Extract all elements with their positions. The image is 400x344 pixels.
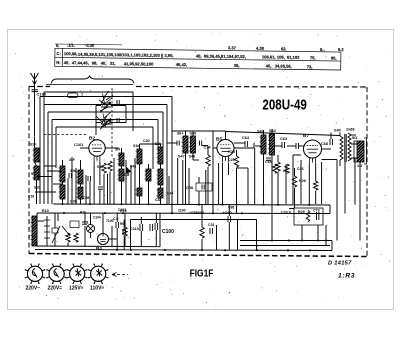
svg-text:C64: C64 bbox=[242, 136, 250, 140]
wire bbox=[213, 130, 226, 132]
scan noise speckles bbox=[15, 33, 390, 307]
svg-text:E16: E16 bbox=[120, 209, 127, 213]
junction bbox=[198, 203, 200, 205]
wire bbox=[148, 164, 150, 169]
capacitor C68 bbox=[295, 143, 297, 149]
svg-text:C30: C30 bbox=[143, 139, 150, 143]
wire bbox=[51, 120, 53, 205]
svg-text:31,: 31, bbox=[110, 61, 116, 66]
wire bbox=[56, 126, 153, 128]
capacitor C63 bbox=[281, 142, 283, 148]
wire bbox=[90, 213, 92, 225]
table row C bbox=[56, 51, 336, 61]
svg-text:5Ω: 5Ω bbox=[352, 136, 357, 140]
wire bbox=[116, 213, 118, 222]
tuning gang dashed coupling bbox=[111, 88, 113, 158]
wire bbox=[109, 172, 111, 204]
mains plug 110V bbox=[91, 266, 106, 281]
wire bbox=[48, 111, 163, 113]
junction bbox=[256, 249, 258, 251]
capacitor C66 bbox=[266, 157, 271, 159]
wire bbox=[202, 145, 209, 147]
resistor R9 bbox=[123, 227, 127, 236]
wire bbox=[351, 143, 357, 145]
antenna bbox=[34, 73, 36, 97]
junction bbox=[317, 239, 319, 241]
wire bbox=[57, 213, 59, 221]
svg-text:S47: S47 bbox=[178, 155, 185, 159]
svg-text:14,95,29,6,101,105,100/103,1,1: 14,95,29,6,101,105,100/103,1,105,102,2,1… bbox=[78, 52, 174, 58]
svg-text:S44: S44 bbox=[269, 129, 277, 133]
speaker frame bbox=[354, 141, 357, 162]
wire bbox=[160, 164, 162, 169]
wire bbox=[293, 154, 301, 156]
junction bbox=[309, 249, 311, 251]
svg-text:C104: C104 bbox=[93, 216, 101, 220]
coil S6 bbox=[78, 187, 83, 199]
wire bbox=[52, 119, 158, 121]
svg-text:C20 S: C20 S bbox=[281, 211, 292, 215]
svg-text:99,36,45,91,104,97,52,: 99,36,45,91,104,97,52, bbox=[204, 54, 246, 60]
wire bbox=[300, 160, 302, 204]
wire bbox=[162, 112, 164, 147]
wire bbox=[301, 225, 303, 241]
wire bbox=[298, 145, 303, 147]
wire bbox=[71, 157, 73, 204]
capacitor C16 bbox=[68, 173, 70, 178]
tube B5 (IF/det) bbox=[217, 140, 234, 157]
wire bbox=[192, 131, 194, 136]
wire power box bottom bbox=[37, 245, 160, 248]
wire bbox=[192, 153, 194, 160]
wire B5 anode to OT bbox=[226, 132, 341, 136]
junction bbox=[241, 212, 243, 214]
junction bbox=[277, 204, 279, 206]
switch SK2 contacts bbox=[96, 112, 111, 126]
svg-text:75,: 75, bbox=[310, 55, 316, 60]
wire bbox=[34, 97, 36, 149]
svg-text:B5: B5 bbox=[216, 137, 222, 143]
svg-text:R:: R: bbox=[56, 60, 60, 65]
wire bbox=[96, 122, 101, 124]
wire bbox=[201, 205, 203, 227]
junction bbox=[164, 249, 166, 251]
wire anode bus bbox=[225, 131, 227, 140]
wire right bus y240 bbox=[240, 240, 332, 242]
wire bbox=[44, 104, 167, 106]
coil S32 bbox=[146, 169, 151, 181]
svg-text:C58: C58 bbox=[186, 186, 193, 190]
wire bbox=[123, 235, 125, 250]
wire bbox=[188, 168, 190, 204]
wire chassis bus y250 bbox=[35, 250, 332, 251]
wire bbox=[277, 155, 279, 162]
svg-text:1:R3: 1:R3 bbox=[338, 273, 355, 280]
resistor R26 bbox=[292, 176, 296, 187]
wire bbox=[292, 155, 294, 204]
svg-text:C25: C25 bbox=[228, 158, 235, 162]
svg-text:S10: S10 bbox=[34, 186, 40, 190]
wire bbox=[198, 191, 200, 204]
capacitor C33 bbox=[176, 141, 178, 146]
wire AVC line bbox=[44, 165, 56, 167]
wire bbox=[236, 150, 238, 156]
coil S4 bbox=[60, 185, 65, 199]
IF transformer S42 bbox=[261, 135, 266, 154]
wire bbox=[205, 170, 207, 204]
wire bbox=[62, 182, 64, 185]
voltage selector bbox=[46, 216, 48, 246]
wire bbox=[75, 168, 77, 204]
wire bbox=[160, 144, 162, 147]
wire bbox=[228, 163, 230, 175]
svg-text:E10: E10 bbox=[42, 209, 49, 213]
svg-text:FIG1F: FIG1F bbox=[190, 268, 214, 280]
wire HT bus bbox=[234, 142, 245, 144]
resistor R29 bbox=[306, 211, 310, 222]
svg-text:R26: R26 bbox=[299, 179, 306, 183]
diode arrow C8 bbox=[126, 167, 131, 173]
svg-text:36+: 36+ bbox=[177, 132, 184, 136]
junction bbox=[63, 212, 65, 214]
wire bbox=[216, 225, 218, 250]
tube B7 (output) bbox=[304, 140, 322, 158]
wire bbox=[121, 166, 123, 169]
wire bbox=[96, 105, 101, 107]
wire bbox=[47, 112, 49, 204]
wire bbox=[351, 134, 356, 136]
junction bbox=[224, 249, 226, 251]
wire bbox=[35, 191, 56, 193]
wire bbox=[93, 162, 95, 204]
svg-text:S42: S42 bbox=[257, 130, 264, 134]
wire bbox=[171, 97, 173, 214]
tuning gang brace bbox=[51, 76, 134, 84]
coil S3 bbox=[60, 166, 65, 182]
wire bbox=[125, 160, 127, 167]
wire bbox=[185, 153, 187, 204]
svg-text:C110: C110 bbox=[130, 227, 139, 231]
wire bbox=[84, 226, 86, 246]
wire bbox=[111, 226, 113, 246]
wire right bus y245 bbox=[240, 245, 330, 247]
junction bbox=[111, 104, 113, 106]
wire bbox=[105, 147, 119, 149]
svg-text:.1/1.: .1/1. bbox=[67, 42, 75, 47]
wire bbox=[325, 225, 327, 246]
svg-text:S4b: S4b bbox=[130, 165, 136, 169]
svg-text:5.: 5. bbox=[56, 43, 59, 48]
coil S39 bbox=[158, 188, 163, 198]
wire bbox=[322, 148, 332, 150]
capacitor C18 bbox=[87, 176, 89, 181]
junction bbox=[116, 249, 118, 251]
junction bbox=[262, 204, 264, 206]
wire bbox=[116, 228, 118, 250]
IF transformer S44 bbox=[270, 134, 275, 155]
junction bbox=[122, 212, 124, 214]
wire bbox=[212, 131, 214, 213]
wire bbox=[111, 105, 126, 107]
svg-text:1000: 1000 bbox=[196, 211, 204, 215]
capacitor C64 bbox=[244, 141, 246, 147]
chassis dashed enclosure bbox=[136, 86, 367, 89]
component value table bbox=[55, 42, 345, 70]
wire bbox=[331, 241, 333, 251]
dial capsule bbox=[68, 93, 79, 98]
svg-text:30k: 30k bbox=[70, 169, 76, 173]
svg-text:S40: S40 bbox=[334, 129, 341, 133]
junction bbox=[104, 212, 106, 214]
wire bbox=[289, 208, 294, 210]
wire bbox=[103, 174, 105, 204]
wire bbox=[254, 148, 256, 204]
wire bbox=[55, 127, 57, 168]
capacitor C31 bbox=[209, 228, 211, 234]
wire bbox=[271, 155, 273, 241]
wire bbox=[207, 146, 209, 156]
resistor R28 bbox=[314, 181, 318, 190]
wire bbox=[157, 120, 159, 148]
junction bbox=[130, 249, 132, 251]
capacitor C35 bbox=[199, 141, 201, 146]
IF transformer T1 secondary bbox=[158, 147, 163, 164]
svg-text:4.38: 4.38 bbox=[256, 46, 265, 51]
svg-text:48,: 48, bbox=[196, 53, 202, 58]
capacitor CE bbox=[115, 222, 117, 228]
svg-text:62.: 62. bbox=[281, 46, 287, 51]
wire bbox=[43, 92, 45, 204]
wire bbox=[294, 168, 296, 176]
wire bbox=[321, 162, 323, 204]
coil S5 bbox=[78, 170, 83, 184]
wire bbox=[167, 142, 177, 144]
wire bbox=[236, 168, 238, 213]
negative feedback box bbox=[294, 208, 323, 225]
wire bbox=[84, 213, 86, 222]
svg-text:S13: S13 bbox=[31, 172, 37, 176]
svg-text:C31: C31 bbox=[208, 223, 215, 227]
IF transformer T1 primary bbox=[137, 149, 142, 164]
junction bbox=[201, 249, 203, 251]
resistor R14 bbox=[273, 164, 277, 173]
wire bbox=[308, 164, 310, 204]
svg-text:41,95,92,50,100: 41,95,92,50,100 bbox=[124, 61, 154, 66]
svg-text:2x88: 2x88 bbox=[346, 128, 354, 132]
resistor R16 bbox=[285, 164, 289, 173]
svg-text:34F: 34F bbox=[69, 158, 75, 162]
wire bbox=[237, 220, 239, 251]
junction bbox=[171, 203, 173, 205]
svg-text:P: P bbox=[28, 227, 30, 231]
wire bbox=[159, 213, 161, 247]
output transformer core bbox=[344, 134, 346, 162]
wire bbox=[315, 191, 317, 204]
wire bbox=[317, 225, 319, 241]
svg-text:73,: 73, bbox=[307, 64, 313, 69]
wire bbox=[339, 160, 341, 166]
svg-text:47,44,45,: 47,44,45, bbox=[72, 60, 89, 65]
heavy dashed bottom border bbox=[29, 254, 367, 257]
resistor R4 bbox=[108, 161, 112, 171]
svg-text:208U-49: 208U-49 bbox=[262, 96, 306, 113]
junction bbox=[325, 239, 327, 241]
wire bbox=[124, 213, 126, 227]
wire bbox=[253, 143, 255, 148]
svg-text:C100: C100 bbox=[162, 229, 174, 235]
mains switch SK bbox=[62, 226, 70, 236]
svg-text:C16: C16 bbox=[28, 195, 34, 199]
wire bbox=[218, 163, 220, 204]
svg-text:220V=: 220V= bbox=[48, 286, 63, 292]
wire bbox=[285, 164, 287, 204]
mains plug 220V~ bbox=[27, 266, 42, 281]
svg-text:S46: S46 bbox=[189, 155, 196, 159]
svg-text:C98: C98 bbox=[70, 200, 77, 204]
detector transformer S6 bbox=[183, 136, 188, 153]
table row R bbox=[56, 60, 312, 69]
wire bbox=[182, 160, 184, 204]
capacitor C58 box bbox=[196, 183, 212, 191]
wire bbox=[80, 147, 89, 149]
wire bbox=[125, 106, 127, 123]
wire bbox=[201, 239, 203, 250]
capacitor C110 bbox=[139, 224, 141, 231]
svg-text:R29: R29 bbox=[298, 210, 305, 214]
wire bbox=[40, 96, 172, 98]
contact bbox=[52, 228, 58, 233]
junction bbox=[61, 203, 63, 205]
wire bbox=[123, 220, 125, 230]
wire bbox=[36, 180, 38, 204]
junction bbox=[171, 212, 173, 214]
wire bbox=[89, 181, 91, 204]
wire bbox=[359, 162, 361, 241]
wire bbox=[277, 172, 279, 204]
output transformer primary S40 bbox=[340, 136, 343, 160]
wire screen bus bbox=[172, 130, 213, 132]
svg-text:46,42,: 46,42, bbox=[176, 62, 187, 67]
electrolytic C69 bbox=[329, 139, 331, 145]
wire bbox=[67, 243, 69, 246]
wire bbox=[99, 162, 101, 185]
junction bbox=[147, 203, 149, 205]
wire bbox=[44, 91, 133, 93]
svg-text:R9: R9 bbox=[120, 222, 124, 226]
svg-text:C.E: C.E bbox=[113, 217, 119, 221]
wire bbox=[351, 157, 357, 159]
svg-text:C63: C63 bbox=[280, 137, 287, 141]
resistor R25 bbox=[234, 156, 238, 167]
resistor R1 bbox=[66, 233, 70, 242]
svg-text:C66: C66 bbox=[265, 160, 272, 164]
svg-text:110V≡: 110V≡ bbox=[90, 286, 104, 292]
wire bbox=[139, 196, 141, 204]
wire bbox=[36, 213, 38, 246]
output transformer secondary S41 bbox=[348, 133, 351, 161]
wire cathode right bbox=[322, 159, 338, 161]
wire mains bus y213 bbox=[37, 212, 330, 215]
rectifier tube B4 bbox=[98, 234, 109, 245]
wire bbox=[107, 174, 109, 204]
wire bbox=[148, 181, 150, 204]
svg-text:9.2: 9.2 bbox=[338, 47, 344, 52]
svg-text:C:: C: bbox=[56, 51, 60, 56]
wire bbox=[228, 222, 230, 250]
svg-text:D 14157: D 14157 bbox=[328, 261, 352, 267]
capacitor C112 bbox=[154, 223, 156, 230]
resistor R3 bbox=[102, 163, 106, 173]
wire bbox=[102, 213, 104, 234]
wire bbox=[263, 130, 265, 135]
wire bbox=[228, 205, 230, 216]
wire bbox=[54, 213, 56, 228]
tuning gang dashed horizontal bbox=[44, 134, 88, 136]
wire bbox=[35, 162, 37, 166]
svg-text:C34: C34 bbox=[204, 146, 212, 150]
wire bbox=[134, 158, 136, 204]
wire bbox=[90, 233, 92, 239]
wire bbox=[155, 213, 157, 223]
wire bbox=[160, 185, 162, 188]
mains dropper resistor bbox=[32, 216, 37, 246]
wire bbox=[85, 175, 87, 204]
wire bbox=[160, 198, 162, 204]
detector transformer S49 bbox=[191, 136, 196, 153]
wire bbox=[67, 178, 69, 204]
wire bbox=[53, 183, 63, 185]
wire bbox=[315, 164, 317, 181]
wire bbox=[152, 127, 154, 169]
wire bbox=[193, 159, 199, 161]
wire bbox=[275, 145, 283, 147]
wire bbox=[166, 105, 168, 205]
mains plug 220V= bbox=[49, 266, 64, 281]
coil S38 bbox=[158, 169, 163, 185]
wire bbox=[168, 176, 170, 204]
wire bbox=[207, 167, 209, 204]
svg-text:34,95,56,: 34,95,56, bbox=[275, 63, 292, 68]
wire bbox=[37, 176, 52, 178]
wire right columns bbox=[336, 160, 338, 241]
wire bbox=[329, 205, 331, 214]
wire bbox=[271, 129, 273, 134]
svg-text:106,: 106, bbox=[277, 55, 285, 60]
wire bbox=[109, 238, 118, 240]
wire bbox=[37, 220, 44, 222]
wire bbox=[121, 148, 123, 153]
wire bbox=[80, 199, 82, 204]
wire bbox=[47, 170, 62, 172]
wire bbox=[111, 122, 126, 124]
svg-text:125V≡: 125V≡ bbox=[69, 286, 84, 292]
junction bbox=[120, 203, 122, 205]
svg-text:E: E bbox=[28, 219, 30, 223]
wire bbox=[198, 177, 200, 183]
wire under brace bbox=[46, 84, 133, 86]
svg-text:S88: S88 bbox=[97, 165, 103, 169]
svg-text:98,: 98, bbox=[92, 60, 98, 65]
junction bbox=[271, 239, 273, 241]
junction bbox=[287, 249, 289, 251]
wire bbox=[62, 199, 64, 204]
capacitor C7 bbox=[98, 186, 103, 188]
svg-text:35,: 35, bbox=[234, 63, 240, 68]
svg-text:85,: 85, bbox=[331, 56, 337, 61]
wire bbox=[222, 163, 224, 204]
wire bbox=[124, 237, 126, 246]
wire bbox=[234, 147, 254, 149]
